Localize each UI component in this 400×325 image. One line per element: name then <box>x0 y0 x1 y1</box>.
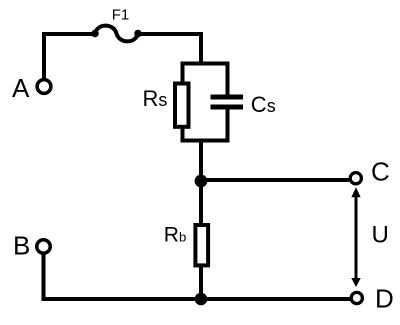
terminal C <box>350 173 361 184</box>
node junction top <box>195 175 208 188</box>
wire node to C <box>201 178 349 182</box>
wire B to bottom rail <box>44 254 202 299</box>
resistor Rb <box>195 225 208 265</box>
svg-text:C: C <box>371 157 390 187</box>
wire left branch top <box>181 64 185 86</box>
svg-text:A: A <box>12 73 30 103</box>
svg-text:U: U <box>372 222 389 249</box>
resistor Rs <box>175 84 189 127</box>
svg-text:Cs: Cs <box>251 92 276 117</box>
wire left branch bottom <box>181 127 185 141</box>
terminal A <box>37 80 51 94</box>
svg-text:F1: F1 <box>112 7 130 24</box>
capacitor Cs <box>211 97 244 107</box>
arrow U <box>351 187 360 287</box>
wire A to fuse <box>44 34 95 80</box>
wire Rb to bottom node <box>199 264 203 300</box>
svg-text:Rs: Rs <box>143 86 168 111</box>
node junction bottom <box>195 293 208 306</box>
svg-text:D: D <box>375 284 394 314</box>
wire fuse to parallel block <box>138 34 201 65</box>
wire block to node <box>199 141 203 184</box>
wire parallel block bottom bar <box>181 139 230 143</box>
terminal B <box>37 240 51 254</box>
svg-text:B: B <box>13 231 30 261</box>
wire right branch bottom <box>226 110 230 141</box>
wire node to Rb <box>199 181 203 226</box>
terminal D <box>351 292 362 303</box>
fuse F1 <box>91 26 142 42</box>
wire bottom node to D <box>201 297 351 301</box>
wire right branch top <box>226 64 230 96</box>
wire parallel block top bar <box>181 62 230 66</box>
